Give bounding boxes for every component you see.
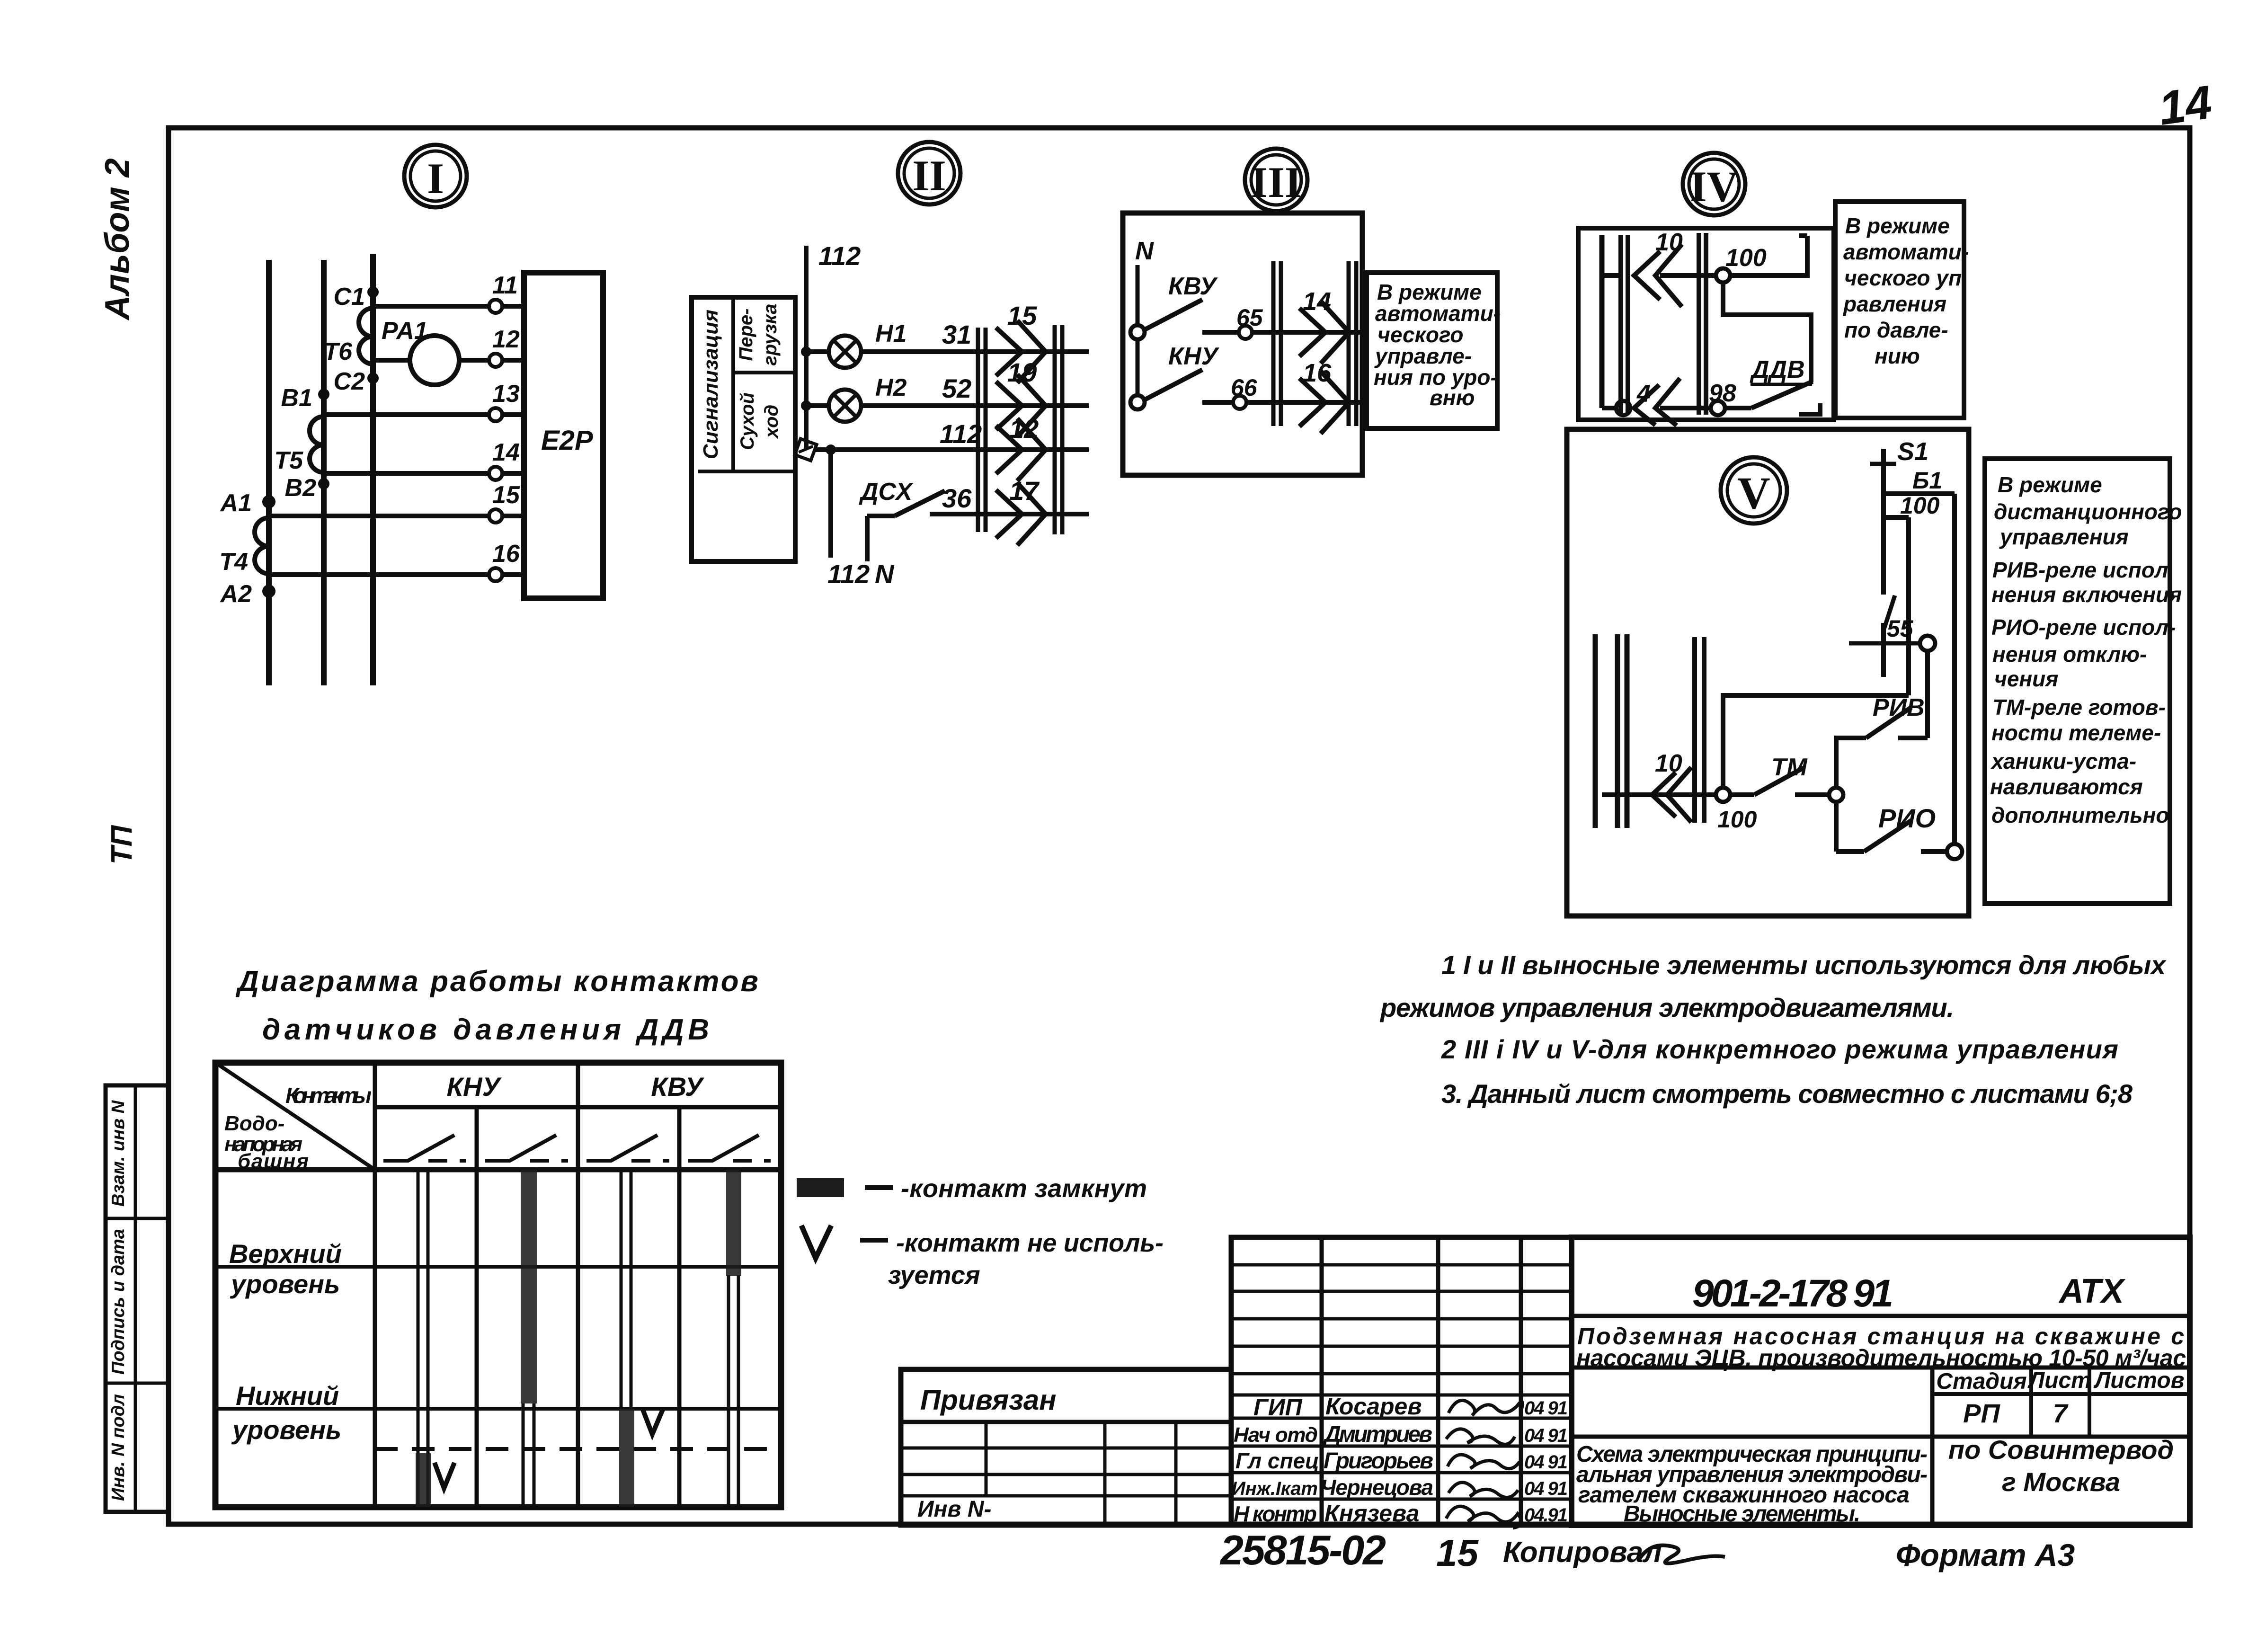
connector bars III left (1273, 261, 1281, 426)
chevron 14 (1299, 287, 1349, 364)
svg-text:Сигнализация: Сигнализация (699, 310, 722, 459)
svg-text:КВУ: КВУ (651, 1072, 704, 1101)
svg-text:13: 13 (492, 380, 520, 408)
svg-text:ности телеме-: ности телеме- (1991, 720, 2161, 745)
svg-text:11: 11 (492, 272, 518, 299)
branch down right (1906, 517, 1911, 695)
svg-text:Водо-: Водо- (224, 1112, 284, 1135)
svg-text:7: 7 (2053, 1398, 2069, 1428)
contact 55 (1849, 615, 1920, 643)
svg-text:Стадия: Стадия (1936, 1369, 2026, 1394)
svg-text:15: 15 (1007, 301, 1037, 330)
svg-text:ДДВ: ДДВ (1750, 356, 1805, 383)
terminal 12 (489, 354, 502, 367)
svg-text:112: 112 (818, 241, 861, 271)
svg-text:Формат А3: Формат А3 (1896, 1537, 2075, 1572)
svg-text:04 91: 04 91 (1524, 1425, 1568, 1446)
switch symbol cell 2 (485, 1135, 556, 1161)
svg-text:14: 14 (492, 439, 520, 466)
chevron 15 (996, 301, 1046, 383)
svg-text:автомати-: автомати- (1843, 240, 1969, 264)
terminal 100 (1716, 268, 1730, 283)
svg-text:14: 14 (1303, 287, 1331, 316)
svg-text:98: 98 (1709, 380, 1736, 407)
svg-text:25815-02: 25815-02 (1219, 1527, 1386, 1573)
svg-text:36: 36 (942, 483, 972, 513)
state bar KNU1 closed bottom (416, 1453, 431, 1507)
svg-text:ТМ: ТМ (1771, 754, 1808, 781)
relay contact RIV (1866, 694, 1925, 738)
stub top (1602, 273, 1621, 278)
copier signature scribble (1639, 1545, 1725, 1563)
terminal 66 (1233, 396, 1246, 409)
svg-text:100: 100 (1717, 806, 1757, 833)
svg-text:датчиков давления ДДВ: датчиков давления ДДВ (262, 1013, 709, 1046)
svg-text:N: N (1135, 237, 1154, 265)
wire to 98 (1660, 406, 1711, 410)
chevron 10 (1634, 229, 1683, 307)
switch symbol cell 1 (383, 1135, 454, 1161)
node A2 (262, 585, 275, 598)
svg-text:В режиме: В режиме (1998, 472, 2102, 497)
node B1 (318, 389, 329, 400)
svg-text:16: 16 (1303, 359, 1332, 387)
svg-text:уровень: уровень (231, 1415, 341, 1445)
svg-text:Пере-: Пере- (736, 308, 756, 361)
right riser B1 to RIO (1952, 494, 1957, 844)
s-wire from 100 (1723, 283, 1811, 382)
wire 66 to edge (1246, 400, 1362, 405)
svg-text:66: 66 (1231, 374, 1258, 401)
riser from 55 (1925, 651, 1930, 738)
state bar KVU1 closed bottom (619, 1409, 634, 1507)
svg-text:12: 12 (492, 326, 520, 353)
svg-text:100: 100 (1900, 492, 1940, 519)
state line KNU1 thin pair (418, 1170, 428, 1507)
terminal 15 (489, 509, 502, 523)
svg-text:дополнительно: дополнительно (1991, 803, 2169, 827)
wire T6 to PA1 to terminal 12 (373, 358, 410, 363)
title block right grid (1572, 1237, 2190, 1525)
node 100 circle (1716, 788, 1730, 802)
svg-text:чения: чения (1994, 666, 2058, 691)
svg-text:Альбом 2: Альбом 2 (98, 158, 136, 320)
N lead lower (1136, 339, 1140, 395)
svg-text:А2: А2 (220, 580, 252, 608)
wire T5 to terminal 14 (324, 471, 489, 476)
svg-text:В2: В2 (285, 474, 317, 502)
hook wire from 100 (1730, 236, 1807, 275)
svg-text:Взам. инв N: Взам. инв N (108, 1100, 128, 1207)
ammeter PA1 (410, 336, 459, 385)
terminal 98 (1711, 401, 1725, 415)
svg-text:S1: S1 (1897, 437, 1928, 466)
chevron 19 (996, 357, 1046, 437)
svg-text:N: N (875, 559, 895, 589)
svg-text:уровень: уровень (230, 1269, 340, 1299)
svg-text:КНУ: КНУ (1168, 343, 1220, 370)
wire 112 horizontal (826, 444, 836, 455)
wire to terminal 65 (1202, 330, 1238, 335)
terminal RIO (1947, 844, 1962, 859)
bus phase C (370, 254, 376, 685)
svg-text:10: 10 (1655, 750, 1682, 777)
switch S1 (1870, 437, 1928, 677)
svg-text:II: II (912, 151, 946, 200)
fragment V callout circle (1721, 457, 1787, 524)
svg-text:Диаграмма работы контактов: Диаграмма работы контактов (235, 965, 758, 998)
svg-text:А1: А1 (220, 489, 252, 517)
svg-text:РА1: РА1 (382, 317, 428, 345)
connector bars III right (1349, 261, 1356, 426)
fragment I callout circle (404, 145, 467, 207)
mark V KNU1 (435, 1463, 454, 1488)
svg-text:Дмитриев: Дмитриев (1323, 1422, 1432, 1447)
svg-text:I: I (427, 154, 444, 203)
connector bars V left group (1595, 634, 1627, 828)
lamp H2 (829, 374, 907, 422)
chevron 17 (996, 476, 1046, 545)
svg-text:РИО-реле испол-: РИО-реле испол- (1991, 615, 2176, 639)
privyazan box (901, 1369, 1231, 1525)
svg-text:Григорьев: Григорьев (1324, 1448, 1433, 1474)
svg-text:Косарев: Косарев (1325, 1393, 1422, 1420)
switch DDV (1750, 356, 1820, 414)
svg-text:В режиме: В режиме (1845, 213, 1950, 238)
wire 65 to edge (1252, 330, 1362, 335)
svg-text:грузка: грузка (760, 304, 781, 366)
riser from node 100 (1723, 695, 1909, 788)
bottom stub and terminal (1602, 406, 1617, 410)
svg-text:15: 15 (1436, 1532, 1479, 1574)
state line KVU1 thin pair (621, 1170, 631, 1409)
svg-text:С1: С1 (334, 283, 365, 311)
svg-text:15: 15 (492, 481, 520, 509)
svg-text:Нач отд: Нач отд (1234, 1423, 1318, 1447)
svg-text:17: 17 (1009, 476, 1040, 506)
svg-text:52: 52 (942, 373, 971, 403)
N lead (1136, 265, 1140, 325)
signalling box (692, 297, 795, 561)
svg-text:Сухой: Сухой (737, 392, 758, 450)
wire 112 vertical feeder (804, 246, 809, 450)
svg-text:55: 55 (1887, 615, 1914, 642)
state line KNU2 thin pair bottom (523, 1403, 534, 1507)
svg-text:нения отклю-: нения отклю- (1992, 642, 2147, 666)
fragment III callout circle (1245, 149, 1307, 211)
fragment IV box (1578, 228, 1834, 420)
svg-text:901-2-178 91: 901-2-178 91 (1692, 1272, 1893, 1315)
svg-text:III: III (1251, 158, 1301, 206)
terminal 13 (489, 408, 502, 421)
wire T4 to terminal 15 (269, 514, 489, 518)
svg-text:Привязан: Привязан (920, 1384, 1056, 1416)
terminal 65 (1239, 326, 1252, 339)
wire to terminal 66 (1202, 400, 1233, 405)
wire T4 to terminal 16 (269, 572, 489, 577)
switch symbol cell 3 (586, 1135, 658, 1161)
svg-text:V: V (1737, 468, 1770, 518)
svg-text:равления: равления (1842, 292, 1946, 316)
svg-text:Т4: Т4 (219, 548, 248, 576)
svg-text:КВУ: КВУ (1168, 273, 1218, 300)
node on 112 at H2 (801, 400, 811, 411)
state bar KVU2 closed top (726, 1170, 741, 1276)
terminal 14 (489, 467, 502, 480)
svg-text:нию: нию (1875, 344, 1920, 368)
svg-text:04 91: 04 91 (1524, 1478, 1568, 1499)
svg-text:16: 16 (492, 540, 520, 568)
fragment III box (1123, 213, 1362, 475)
svg-text:-контакт не исполь-: -контакт не исполь- (896, 1229, 1164, 1257)
svg-text:ГИП: ГИП (1253, 1394, 1303, 1421)
svg-text:Е2Р: Е2Р (541, 425, 593, 456)
svg-text:Инв N-: Инв N- (917, 1497, 992, 1522)
svg-text:Лист: Лист (2027, 1368, 2091, 1393)
svg-text:ход: ход (761, 405, 782, 439)
node A1 (262, 495, 275, 508)
svg-text:Т5: Т5 (274, 447, 303, 474)
wire to 100 (1660, 273, 1716, 278)
svg-text:ТМ-реле готов-: ТМ-реле готов- (1992, 695, 2166, 719)
svg-text:ханики-уста-: ханики-уста- (1990, 749, 2136, 773)
svg-text:зуется: зуется (888, 1261, 980, 1289)
svg-text:112: 112 (940, 419, 982, 449)
chevron 4 (1634, 378, 1680, 426)
svg-text:04 91: 04 91 (1524, 1452, 1568, 1473)
terminal at 55 (1920, 636, 1935, 651)
svg-text:башня: башня (238, 1150, 309, 1173)
lamp H1 (829, 320, 906, 368)
svg-text:Б1: Б1 (1912, 467, 1942, 494)
svg-text:1 I и II выносные элементы и: 1 I и II выносные элементы используются … (1441, 950, 2167, 980)
svg-text:вню: вню (1430, 385, 1475, 410)
wire 52 (806, 403, 829, 408)
svg-text:14: 14 (2155, 75, 2215, 135)
switch symbol cell 4 (688, 1135, 759, 1161)
svg-text:насосами ЭЦВ. производительнос: насосами ЭЦВ. производительностью 10-50 … (1576, 1345, 2186, 1371)
connector bars right (1055, 325, 1062, 534)
svg-text:100: 100 (1725, 244, 1767, 272)
node junction (1829, 788, 1843, 802)
sheet border frame (169, 128, 2190, 1524)
wire 100 tap (1884, 515, 1909, 520)
terminal 11 (489, 300, 502, 313)
svg-text:Т6: Т6 (323, 338, 353, 365)
current transformer T6 (359, 308, 373, 364)
svg-text:по Совинтервод: по Совинтервод (1948, 1435, 2174, 1465)
note box III (1367, 273, 1501, 428)
svg-text:-контакт замкнут: -контакт замкнут (901, 1174, 1147, 1203)
node C1 (367, 286, 379, 298)
svg-text:режимов управления электродв: режимов управления электродвигателями. (1379, 993, 1954, 1022)
svg-text:по давле-: по давле- (1844, 318, 1948, 342)
svg-text:Н контр: Н контр (1234, 1501, 1317, 1526)
svg-text:Князева: Князева (1324, 1500, 1419, 1527)
chevron 12 (996, 414, 1046, 481)
svg-text:РП: РП (1963, 1398, 2000, 1428)
svg-text:Подпись и дата: Подпись и дата (108, 1229, 128, 1375)
svg-text:Н1: Н1 (875, 320, 906, 347)
svg-text:РИВ-реле испол: РИВ-реле испол (1992, 558, 2168, 582)
bus bar single (1600, 235, 1605, 408)
svg-text:31: 31 (942, 320, 971, 349)
wire C1 to terminal 11 (373, 304, 489, 309)
svg-text:4: 4 (1636, 380, 1651, 408)
bus phase A (266, 260, 272, 685)
svg-text:Гл спец: Гл спец (1235, 1448, 1319, 1473)
svg-text:Выносные элементы.: Выносные элементы. (1624, 1501, 1860, 1527)
hatched tap node (795, 439, 817, 461)
svg-text:10: 10 (1655, 229, 1683, 256)
svg-text:Нижний: Нижний (236, 1381, 339, 1411)
contacts table grid (215, 1063, 781, 1507)
svg-text:управления: управления (1999, 524, 2129, 549)
terminal on N upper (1130, 325, 1145, 339)
svg-text:19: 19 (1007, 357, 1037, 387)
terminal on N lower (1130, 395, 1145, 409)
wire from bars to node (1602, 792, 1716, 797)
node B2 (318, 478, 329, 489)
svg-text:IV: IV (1690, 162, 1738, 211)
svg-text:нения включения: нения включения (1991, 582, 2182, 607)
svg-text:ческого уп: ческого уп (1844, 266, 1962, 290)
current transformer T4 (255, 518, 269, 574)
svg-text:ДСХ: ДСХ (859, 478, 914, 506)
connector bars IV middle pair (1699, 233, 1706, 415)
relay block E2P (524, 273, 603, 598)
svg-text:112: 112 (827, 559, 870, 589)
svg-text:Инв. N подл: Инв. N подл (108, 1394, 128, 1501)
svg-text:12: 12 (1009, 414, 1039, 444)
svg-text:2 III i IV и V-для конкретно: 2 III i IV и V-для конкретного режима уп… (1441, 1034, 2118, 1064)
note box V (1985, 459, 2182, 904)
left stamp column (106, 1085, 168, 1512)
svg-text:Листов: Листов (2093, 1368, 2184, 1393)
wire T5 to terminal 13 (324, 412, 489, 417)
note box IV (1835, 202, 1969, 418)
svg-text:В1: В1 (281, 384, 312, 412)
wire to RIV (1836, 738, 1866, 789)
chevron 16 (1299, 359, 1349, 434)
svg-text:ТП: ТП (106, 825, 138, 864)
svg-text:КНУ: КНУ (447, 1072, 502, 1101)
wire 31 (806, 349, 829, 354)
legend V symbol (801, 1226, 831, 1258)
fragment IV callout circle (1683, 153, 1745, 215)
svg-text:Чернецова: Чернецова (1321, 1475, 1433, 1500)
state bar KNU2 closed top (521, 1170, 537, 1403)
node on 112 at H1 (801, 346, 811, 357)
wire 36 (930, 512, 1089, 516)
wire 98 (1725, 406, 1751, 410)
svg-text:Инж.Iкат: Инж.Iкат (1232, 1478, 1318, 1499)
svg-text:дистанционного: дистанционного (1994, 499, 2182, 524)
switch KVU (1144, 273, 1218, 330)
svg-text:навливаются: навливаются (1990, 774, 2143, 799)
legend closed bar (797, 1178, 844, 1197)
svg-text:Копировал: Копировал (1503, 1536, 1662, 1569)
connector bars left (978, 328, 986, 532)
fragment V box (1567, 429, 1969, 916)
terminal 16 (489, 568, 502, 581)
svg-text:65: 65 (1236, 304, 1263, 331)
node C2 (367, 373, 379, 384)
lead 112 down (828, 450, 833, 558)
switch DSX (859, 478, 945, 589)
relay contact RIO (1836, 802, 1947, 852)
state line KVU2 thin pair bottom (729, 1275, 738, 1507)
svg-text:РИВ: РИВ (1873, 694, 1925, 721)
relay contact TM (1729, 754, 1829, 795)
svg-text:С2: С2 (334, 368, 365, 395)
svg-text:г Москва: г Москва (2002, 1467, 2120, 1497)
current transformer T5 (310, 417, 324, 472)
wire B1 (1884, 491, 1955, 496)
svg-text:Верхний: Верхний (229, 1239, 342, 1269)
connector bars IV left pair (1621, 235, 1628, 413)
svg-text:Контакты: Контакты (285, 1083, 372, 1108)
bus phase B (321, 260, 327, 685)
fragment II callout circle (898, 142, 960, 204)
svg-text:04 91: 04 91 (1524, 1398, 1568, 1419)
signature table grid (1231, 1237, 1572, 1525)
chevron 10 left (1652, 750, 1691, 822)
svg-text:Н2: Н2 (875, 374, 907, 401)
svg-text:РИО: РИО (1878, 803, 1936, 833)
svg-text:04.91: 04.91 (1524, 1505, 1568, 1526)
svg-text:3. Данный лист смотреть сов: 3. Данный лист смотреть совместно с лист… (1441, 1079, 2133, 1109)
mark V KVU1 (643, 1410, 663, 1434)
connector bars V middle pair (1695, 637, 1704, 823)
switch KNU (1144, 343, 1220, 400)
svg-text:АТХ: АТХ (2058, 1272, 2126, 1310)
